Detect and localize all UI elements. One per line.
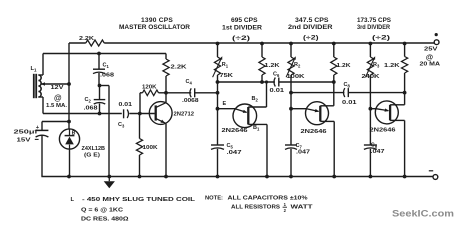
svg-text:SeekIC.com: SeekIC.com [392,208,454,219]
svg-text:C5: C5 [227,143,234,150]
wire trigger line with C6 (divider1 to divider2) [218,80,336,84]
wire divider3 emitter column [369,75,377,111]
svg-text:C4: C4 [186,79,193,86]
svg-text:2.2K: 2.2K [171,65,188,71]
svg-text:0.01: 0.01 [342,100,357,106]
wire divider2 B2 lead [320,82,334,106]
svg-text:2N2646: 2N2646 [222,128,249,134]
watermark SeekIC.com [392,208,454,219]
svg-text:2N2646: 2N2646 [370,127,397,133]
unijunction transistor Q2 2N2646 (1st divider) [222,104,257,134]
svg-text:(G E): (G E) [84,153,100,159]
terminal ground return (negative) [429,171,438,180]
svg-text:NOTE:: NOTE: [205,196,223,202]
capacitor C2 .068 [84,84,106,114]
capacitor C8 0.01 coupling [342,82,357,106]
svg-text:.047: .047 [227,150,242,156]
note tolerances [205,196,313,214]
svg-text:120K: 120K [142,84,157,90]
wire supply branch to regulator node [42,120,71,124]
wire oscillator base line [43,112,155,116]
svg-text:C3: C3 [118,122,125,129]
svg-text:B1: B1 [253,125,260,132]
wire emitter to ground rail [165,124,167,177]
capacitor C9 .047 [364,109,385,177]
svg-text:1.5 MA.: 1.5 MA. [46,103,67,109]
label 173.75 CPS 3rd DIVIDER heading [357,17,391,42]
svg-text:12V: 12V [51,85,64,91]
inductor L1 slug-tuned coil [31,66,42,98]
ground symbol [104,177,115,189]
svg-text:C9: C9 [371,142,378,149]
svg-text:Q = 6 @ 1KC: Q = 6 @ 1KC [81,208,123,214]
svg-text:.047: .047 [296,149,310,155]
svg-text:(÷2): (÷2) [303,35,319,42]
svg-text:.047: .047 [371,149,385,155]
svg-text:.068: .068 [100,72,114,78]
wire +25V top supply rail [69,42,434,46]
resistor R3 240K (variable) [362,43,381,80]
wire divider3 B2 lead [390,93,405,105]
capacitor C3 0.01 [118,102,132,129]
diode Z4XL12B (GE) reference [59,129,105,177]
svg-text:250μf: 250μf [14,129,38,135]
svg-text:173.75 CPS: 173.75 CPS [357,17,391,24]
svg-text:100K: 100K [143,145,159,151]
wire divider3 B1 lead to ground [390,120,405,176]
capacitor C4 .0068 coupling [166,79,219,104]
transistor Q1 2N2712 (oscillator) [149,102,194,125]
label 347.5 CPS 2nd DIVIDER heading [288,17,333,42]
svg-text:(÷2): (÷2) [372,35,390,42]
wire divider2 B1 lead to ground [320,121,334,176]
svg-text:R3: R3 [373,62,380,69]
svg-text:1390 CPS: 1390 CPS [141,17,173,24]
svg-text:R1: R1 [222,62,229,69]
svg-text:20 MA: 20 MA [420,62,441,68]
svg-text:WATT: WATT [291,205,314,211]
svg-text:- 450 MHY SLUG TUNED COIL: - 450 MHY SLUG TUNED COIL [82,197,196,203]
svg-text:L: L [71,197,75,203]
capacitor C6 0.01 coupling [270,72,285,94]
svg-text:@: @ [426,53,433,62]
terminal +25V output [420,33,441,68]
label 12V @ 1.5 MA [46,85,67,109]
svg-text:0.01: 0.01 [119,102,133,108]
wire 12V tap from coil [41,82,71,86]
svg-text:3rd DIVIDER: 3rd DIVIDER [357,24,391,31]
wire ground bottom rail [41,175,433,179]
wire feedback rail (oscillator top) [43,52,166,56]
svg-text:347.5 CPS: 347.5 CPS [295,17,329,24]
resistor 1.2K divider3 B2 supply [384,43,408,93]
wire trigger line with C8 (divider2 to divider3) [291,91,407,95]
resistor 100K base bias [136,114,158,177]
wire divider1 B2 lead [248,82,266,107]
svg-text:ALL CAPACITORS ±10%: ALL CAPACITORS ±10% [228,196,308,202]
svg-text:C8: C8 [344,82,351,89]
svg-text:25V: 25V [424,47,438,53]
svg-text:.068: .068 [84,105,98,111]
wire +25V rail left drop (x=69) [68,43,70,129]
resistor 1.2K divider2 B2 supply [331,43,351,82]
resistor 1.2K divider1 B2 supply [259,43,280,82]
svg-text:1st DIVIDER: 1st DIVIDER [222,25,263,32]
svg-text:2N2712: 2N2712 [174,111,195,117]
svg-text:100K: 100K [287,74,306,80]
unijunction transistor Q3 2N2646 (2nd divider) [301,102,329,136]
capacitor C5 .047 [211,109,242,177]
svg-text:C2: C2 [85,97,92,104]
svg-text:C1: C1 [103,63,110,70]
label 695 CPS 1st DIVIDER heading [222,17,263,42]
resistor 2.2K collector load (vertical) [163,54,188,103]
svg-text:B2: B2 [252,96,259,103]
svg-text:ALL RESISTORS: ALL RESISTORS [231,205,280,211]
svg-text:Z4XL12B: Z4XL12B [82,146,106,152]
svg-text:B: B [72,131,76,137]
wire divider2 emitter column [289,75,306,111]
wire divider1 emitter column [216,75,235,111]
svg-text:0.01: 0.01 [270,88,285,94]
svg-text:MASTER OSCILLATOR: MASTER OSCILLATOR [119,24,191,31]
svg-text:DC RES. 480Ω: DC RES. 480Ω [81,217,129,223]
svg-text:695 CPS: 695 CPS [231,17,258,24]
svg-text:@: @ [54,93,62,102]
svg-text:1.2K: 1.2K [337,63,351,69]
wire left column (feedback rail to coil) [38,54,43,114]
capacitor 250uf 15V electrolytic [14,122,49,177]
svg-text:2.2K: 2.2K [79,36,95,42]
svg-text:C6: C6 [273,72,280,79]
unijunction transistor Q4 2N2646 (3rd divider) [370,101,399,133]
svg-text:1.2K: 1.2K [384,63,400,69]
resistor R1 75K (variable) [213,43,235,79]
svg-text:.0068: .0068 [182,98,199,104]
svg-text:(÷2): (÷2) [232,35,250,42]
capacitor C1 .068 [93,54,114,86]
svg-text:15V: 15V [17,137,31,143]
svg-text:75K: 75K [220,73,235,79]
svg-text:2nd DIVIDER: 2nd DIVIDER [288,24,333,31]
wire divider1 B1 lead to ground [248,124,267,176]
svg-text:E: E [223,101,227,107]
svg-text:1.2K: 1.2K [265,63,280,69]
resistor R2 100K (variable) [286,43,306,80]
wire C1-C2 node to ground column [100,86,110,177]
svg-text:R2: R2 [294,62,301,69]
resistor 2.2K (supply dropping, in top rail) [79,36,104,46]
capacitor C7 .047 [285,109,310,177]
label 1390 CPS MASTER OSCILLATOR heading [119,17,191,31]
resistor 120K feedback [140,84,168,113]
note L coil specification [71,197,196,223]
svg-text:L1: L1 [31,66,38,73]
svg-text:2N2646: 2N2646 [301,129,328,135]
